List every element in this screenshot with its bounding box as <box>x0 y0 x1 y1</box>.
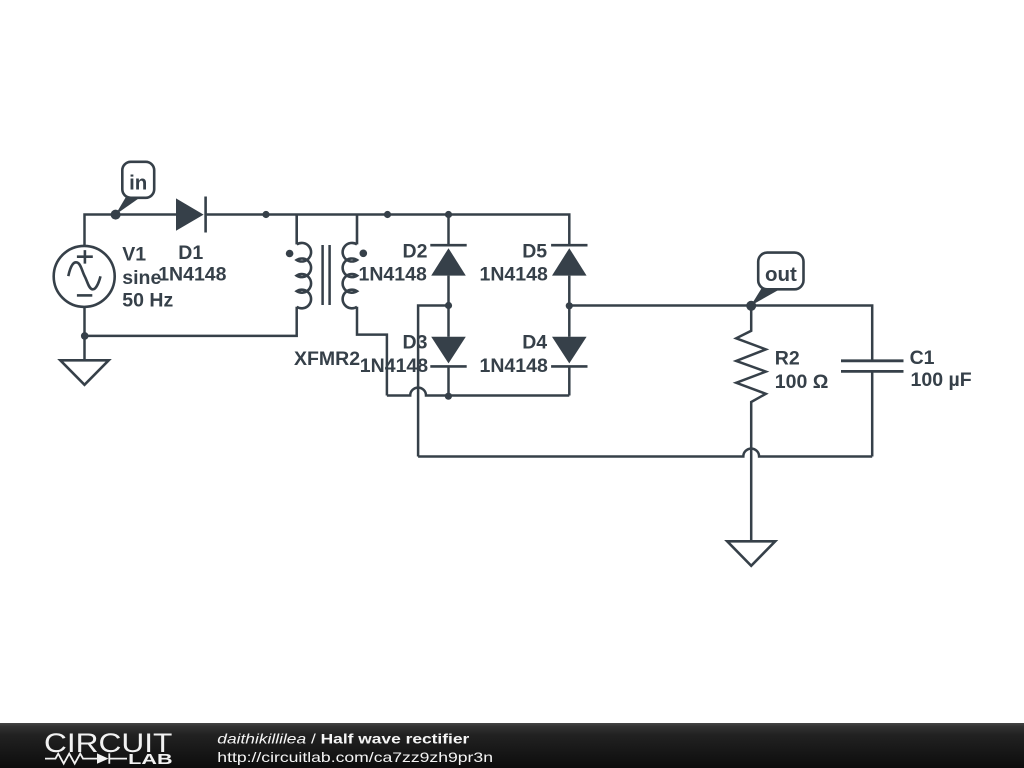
transformer XFMR2 primary winding <box>297 215 311 309</box>
wire top rail left segment <box>85 215 177 246</box>
svg-text:daithikillilea / Half wave rec: daithikillilea / Half wave rectifier <box>217 732 470 747</box>
wire bottom out rail with hop <box>418 449 872 457</box>
svg-text:1N4148: 1N4148 <box>480 355 548 377</box>
wire out node rail <box>569 306 872 360</box>
diode D4 <box>551 337 587 367</box>
wire transformer secondary bottom <box>357 307 387 396</box>
wire bridge bottom rail with hop <box>387 388 569 396</box>
svg-text:sine: sine <box>122 267 161 289</box>
svg-text:V1: V1 <box>122 244 146 266</box>
flag out <box>751 253 804 306</box>
svg-text:100 Ω: 100 Ω <box>775 371 829 393</box>
junction dot D2 top <box>445 211 452 218</box>
diode D3 <box>430 337 466 367</box>
logo resistor-diode squiggle <box>45 753 127 763</box>
ground G1 <box>60 360 108 385</box>
diode D2 <box>430 245 466 275</box>
labels <box>122 241 971 394</box>
svg-text:D3: D3 <box>403 332 428 354</box>
transformer phase dot primary <box>286 250 294 258</box>
wire V1 bottom to ground <box>83 307 86 360</box>
svg-text:XFMR2: XFMR2 <box>294 348 360 370</box>
resistor R2 zigzag and leads <box>736 306 766 542</box>
diode D5 <box>551 245 587 275</box>
capacitor C1 plates <box>841 361 904 372</box>
wire D5 bottom to out node <box>568 276 571 306</box>
watermark bar <box>0 723 1024 768</box>
svg-text:out: out <box>765 263 797 286</box>
svg-text:50 Hz: 50 Hz <box>122 290 173 312</box>
wire D3 bottom lead <box>447 366 450 395</box>
svg-text:D5: D5 <box>522 241 547 263</box>
svg-text:R2: R2 <box>775 348 800 370</box>
wire D2 mid node to crossing vertical <box>418 306 448 457</box>
svg-text:D4: D4 <box>522 332 547 354</box>
svg-text:1N4148: 1N4148 <box>158 264 226 286</box>
wire D2 bottom to mid node <box>447 276 450 306</box>
wire top rail right segment <box>206 215 570 246</box>
svg-text:D2: D2 <box>403 241 428 263</box>
svg-text:C1: C1 <box>910 347 935 369</box>
transformer XFMR2 secondary winding <box>343 215 357 309</box>
junction dot V1 bottom <box>81 332 89 340</box>
wire bottom-left rail to transformer primary <box>85 307 297 336</box>
wire D2 column top lead <box>447 215 450 246</box>
svg-text:1N4148: 1N4148 <box>480 264 548 286</box>
junction dot in-node <box>111 210 121 220</box>
transformer phase dot secondary <box>360 250 368 258</box>
wire D4 top lead <box>568 306 571 337</box>
junction dot top rail mid <box>384 211 391 218</box>
junction dot D3 bottom <box>445 393 452 400</box>
flag in <box>115 162 154 215</box>
junction dot out node left <box>566 302 573 309</box>
voltage source V1 <box>54 246 115 307</box>
wire C1 bottom lead <box>871 372 874 456</box>
svg-text:LAB: LAB <box>128 752 172 768</box>
junction dot after D1 <box>262 211 269 218</box>
wire D3 top lead <box>447 306 450 337</box>
svg-text:1N4148: 1N4148 <box>360 355 428 377</box>
junction dot out node R2 <box>746 301 756 311</box>
svg-text:http://circuitlab.com/ca7zz9zh: http://circuitlab.com/ca7zz9zh9pr3n <box>217 749 493 765</box>
wire D4 bottom lead <box>568 366 571 395</box>
svg-text:1N4148: 1N4148 <box>359 264 427 286</box>
svg-text:100 µF: 100 µF <box>911 369 972 391</box>
diode D1 <box>176 197 206 233</box>
svg-text:in: in <box>129 171 147 194</box>
transformer XFMR2 core <box>323 245 330 305</box>
junction dot D2-D3 mid <box>445 302 452 309</box>
ground G2 <box>727 541 775 566</box>
svg-text:D1: D1 <box>178 242 203 264</box>
